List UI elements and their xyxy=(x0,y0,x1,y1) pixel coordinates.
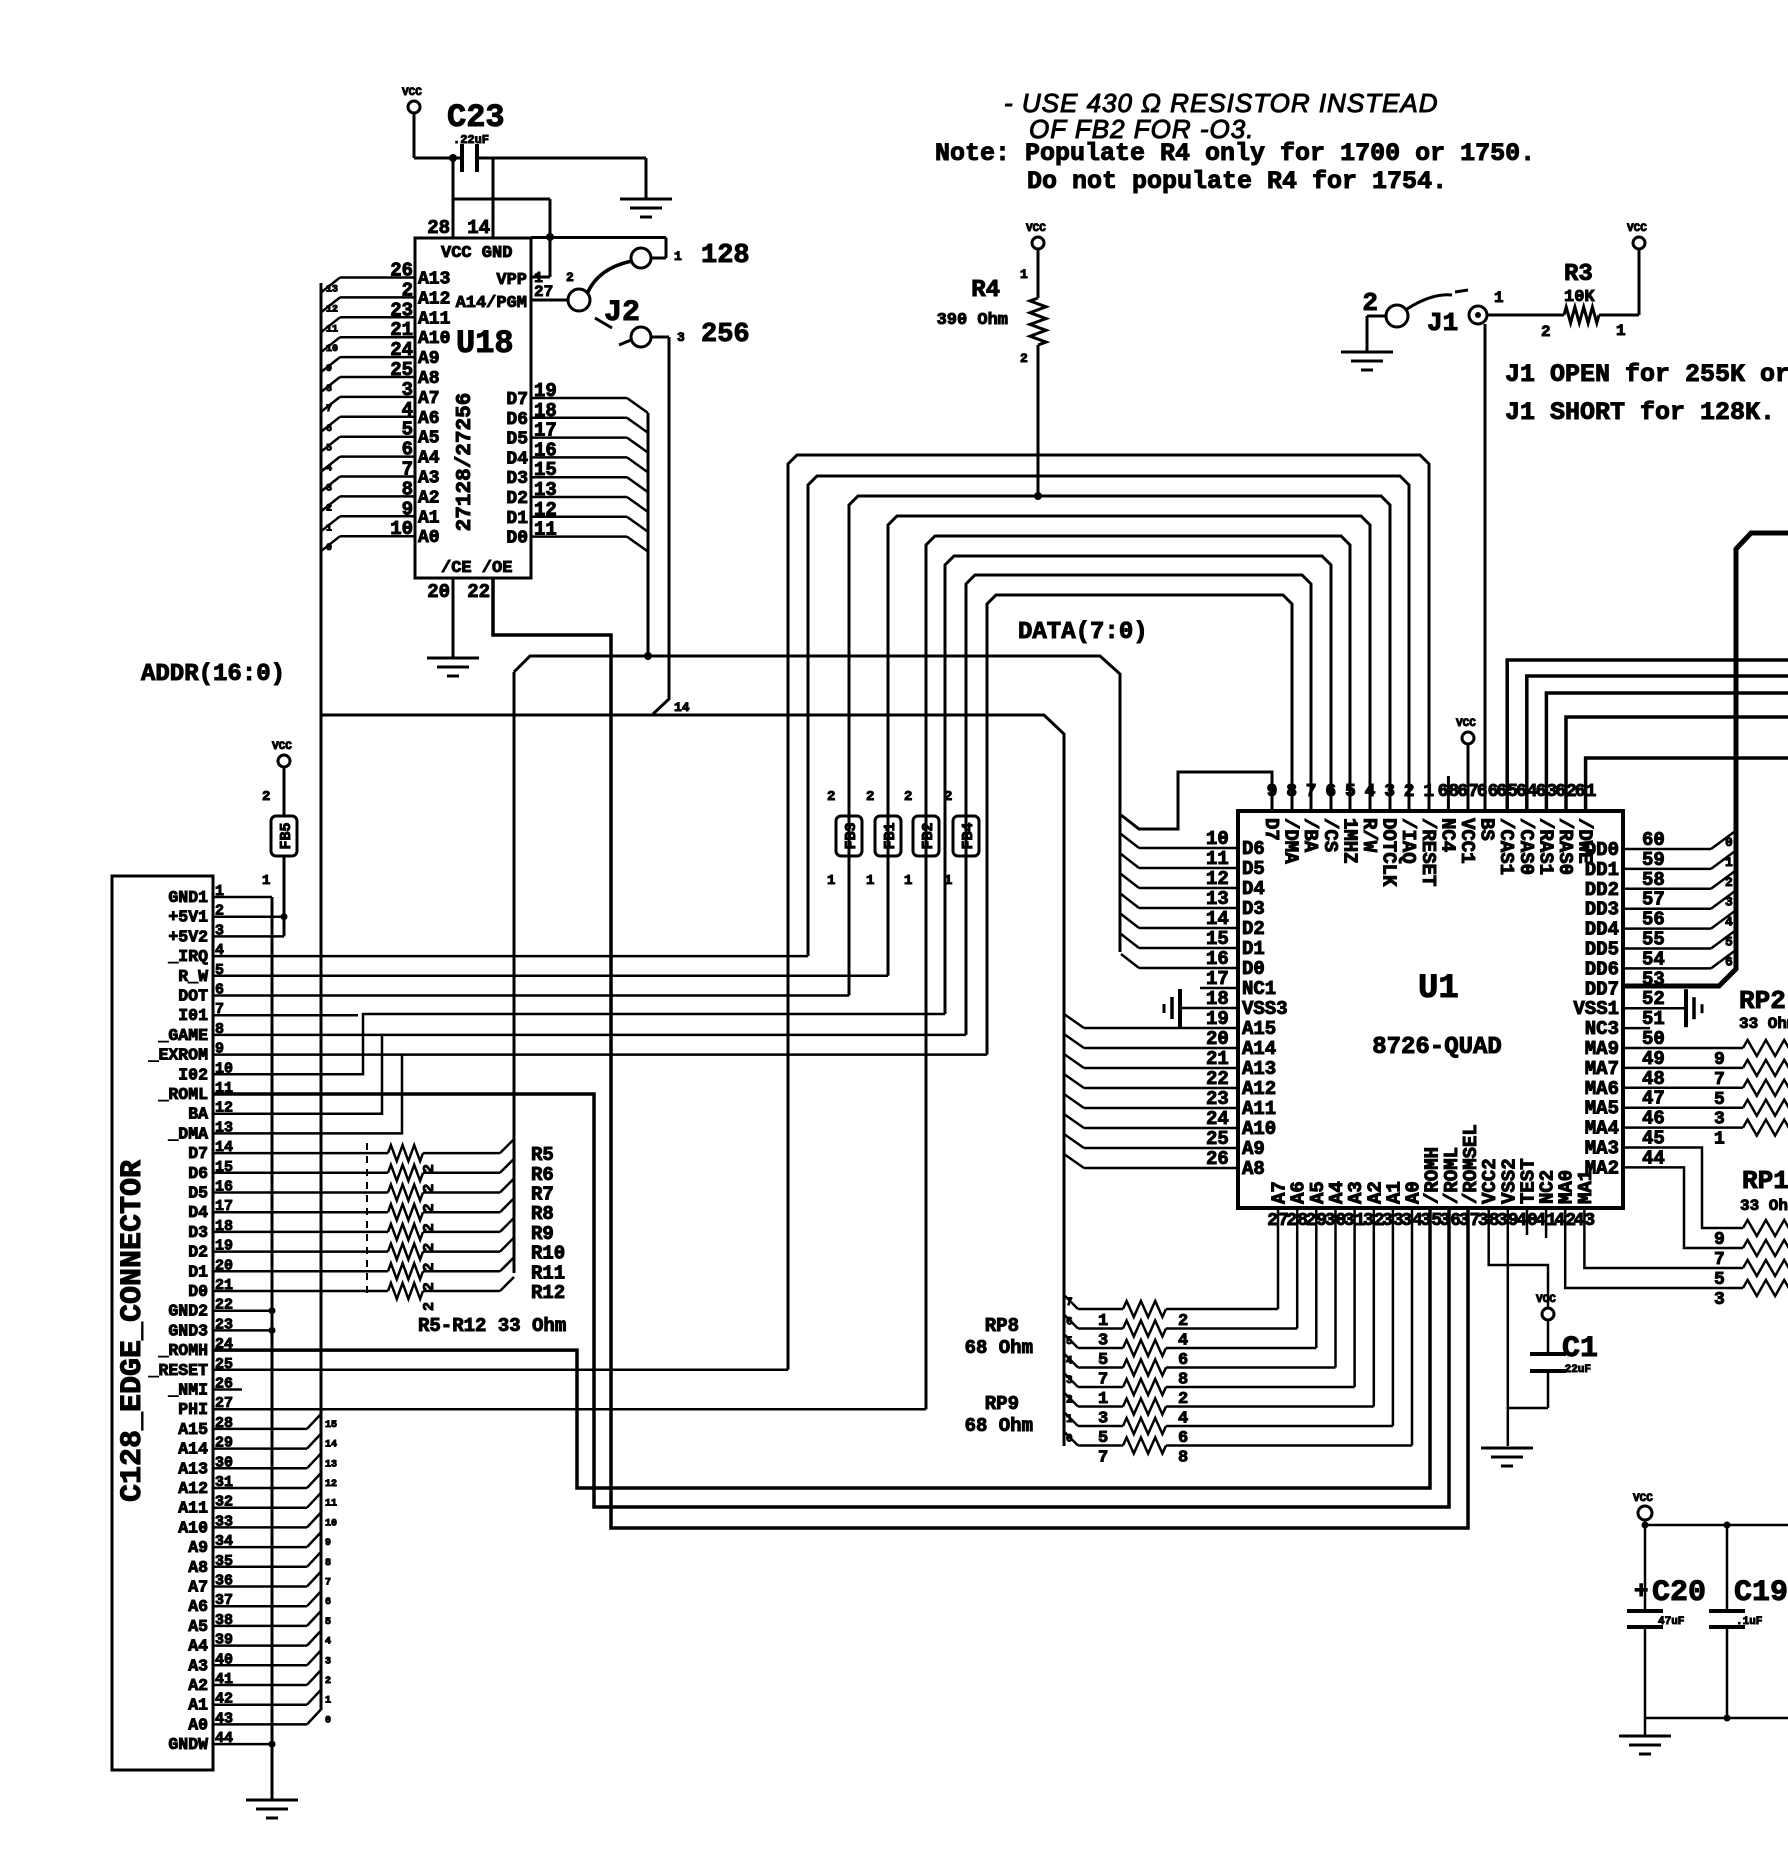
svg-text:MA7: MA7 xyxy=(1585,1058,1619,1080)
svg-text:/IAQ: /IAQ xyxy=(1397,818,1419,864)
svg-text:R9: R9 xyxy=(531,1223,554,1245)
svg-text:5: 5 xyxy=(1345,782,1356,802)
svg-text:2: 2 xyxy=(1541,323,1551,341)
svg-text:_GAME: _GAME xyxy=(157,1026,208,1045)
svg-text:R8: R8 xyxy=(531,1203,554,1225)
svg-text:66: 66 xyxy=(1477,782,1499,802)
svg-text:BS: BS xyxy=(1476,818,1498,841)
svg-text:10: 10 xyxy=(325,1518,337,1529)
svg-text:1: 1 xyxy=(827,873,835,889)
svg-text:3: 3 xyxy=(1066,1375,1073,1387)
svg-text:J1 OPEN for 255K or: J1 OPEN for 255K or xyxy=(1505,360,1788,389)
svg-text:RP9: RP9 xyxy=(985,1393,1019,1415)
svg-text:2: 2 xyxy=(827,789,835,805)
svg-text:RP8: RP8 xyxy=(985,1315,1019,1337)
svg-text:A11: A11 xyxy=(178,1499,208,1518)
svg-text:DD2: DD2 xyxy=(1585,879,1619,901)
svg-text:D4: D4 xyxy=(188,1203,208,1222)
svg-text:A14: A14 xyxy=(178,1440,208,1459)
svg-text:R4: R4 xyxy=(971,277,1000,304)
svg-text:D2: D2 xyxy=(188,1243,208,1262)
svg-text:/CAS0: /CAS0 xyxy=(1515,818,1537,875)
svg-text:14: 14 xyxy=(674,700,690,715)
svg-text:A6: A6 xyxy=(188,1597,208,1616)
svg-text:7: 7 xyxy=(326,404,332,415)
svg-text:4: 4 xyxy=(1725,915,1733,930)
svg-text:8: 8 xyxy=(326,384,332,395)
svg-text:D1: D1 xyxy=(1242,938,1265,960)
svg-text:14: 14 xyxy=(467,217,490,239)
svg-text:9: 9 xyxy=(325,1538,331,1549)
svg-text:Do not populate R4 for 1754.: Do not populate R4 for 1754. xyxy=(1027,167,1447,196)
svg-text:11: 11 xyxy=(1206,848,1229,870)
svg-text:D0: D0 xyxy=(506,529,528,549)
svg-text:5: 5 xyxy=(1066,1336,1073,1348)
svg-text:U1: U1 xyxy=(1418,970,1459,1008)
svg-text:0: 0 xyxy=(1066,1434,1073,1446)
svg-text:15: 15 xyxy=(1206,928,1229,950)
svg-text:6: 6 xyxy=(1325,782,1336,802)
svg-text:A9: A9 xyxy=(188,1538,208,1557)
svg-text:MA6: MA6 xyxy=(1585,1078,1619,1100)
svg-text:FB5: FB5 xyxy=(278,822,295,849)
svg-text:C128_EDGE_CONNECTOR: C128_EDGE_CONNECTOR xyxy=(116,1160,150,1502)
svg-text:2: 2 xyxy=(1066,1395,1073,1407)
svg-text:D5: D5 xyxy=(188,1184,208,1203)
svg-text:R5-R12 33 Ohm: R5-R12 33 Ohm xyxy=(418,1315,566,1337)
svg-text:/BA: /BA xyxy=(1299,818,1321,853)
svg-text:2: 2 xyxy=(326,503,332,514)
svg-text:18: 18 xyxy=(1206,988,1229,1010)
svg-text:12: 12 xyxy=(1206,868,1229,890)
svg-text:A10: A10 xyxy=(418,329,450,349)
svg-text:7: 7 xyxy=(1098,1449,1108,1468)
svg-text:16: 16 xyxy=(1206,948,1229,970)
svg-text:D2: D2 xyxy=(506,489,528,509)
svg-text:6: 6 xyxy=(1725,954,1733,969)
svg-text:5: 5 xyxy=(326,444,332,455)
svg-text:33 Ohm: 33 Ohm xyxy=(1740,1197,1788,1215)
svg-text:/CS: /CS xyxy=(1319,818,1341,852)
svg-text:D2: D2 xyxy=(1242,918,1265,940)
svg-text:.22uF: .22uF xyxy=(453,133,489,147)
svg-text:A10: A10 xyxy=(178,1518,208,1537)
svg-text:A0: A0 xyxy=(418,528,440,548)
svg-text:C1: C1 xyxy=(1562,1332,1598,1366)
svg-text:DATA(7:0): DATA(7:0) xyxy=(1018,619,1148,646)
svg-text:68 Ohm: 68 Ohm xyxy=(965,1415,1033,1437)
svg-text:2: 2 xyxy=(1020,351,1028,366)
svg-text:14: 14 xyxy=(1206,908,1229,930)
svg-text:VPP: VPP xyxy=(496,271,527,290)
svg-text:1: 1 xyxy=(1066,1414,1073,1426)
svg-text:2: 2 xyxy=(866,789,874,805)
svg-text:8: 8 xyxy=(1178,1449,1188,1468)
svg-text:4: 4 xyxy=(325,1637,331,1648)
svg-text:D4: D4 xyxy=(506,449,528,469)
svg-text:5: 5 xyxy=(1725,935,1733,950)
svg-text:12: 12 xyxy=(326,304,338,315)
svg-text:A15: A15 xyxy=(1242,1018,1276,1040)
svg-text:VCC: VCC xyxy=(1026,223,1046,235)
svg-text:A9: A9 xyxy=(418,349,440,369)
svg-text:C23: C23 xyxy=(447,99,505,136)
svg-text:R5: R5 xyxy=(531,1144,554,1166)
svg-text:GND1: GND1 xyxy=(168,888,208,907)
svg-text:4: 4 xyxy=(1066,1356,1073,1368)
svg-text:1: 1 xyxy=(1020,267,1028,282)
svg-text:A2: A2 xyxy=(188,1676,208,1695)
svg-text:A15: A15 xyxy=(178,1420,208,1439)
svg-text:A1: A1 xyxy=(418,508,440,528)
svg-text:A14: A14 xyxy=(1242,1038,1276,1060)
svg-text:2: 2 xyxy=(421,1302,438,1311)
svg-text:48: 48 xyxy=(1642,1068,1665,1090)
svg-text:1: 1 xyxy=(674,249,682,264)
svg-text:D7: D7 xyxy=(506,390,528,410)
svg-text:9: 9 xyxy=(1714,1230,1725,1250)
svg-text:3: 3 xyxy=(1714,1290,1725,1310)
svg-text:DD5: DD5 xyxy=(1585,939,1619,961)
svg-text:NC1: NC1 xyxy=(1242,978,1276,1000)
svg-text:DD3: DD3 xyxy=(1585,899,1619,921)
svg-text:3: 3 xyxy=(1725,895,1733,910)
svg-text:/RAS1: /RAS1 xyxy=(1534,818,1556,875)
svg-text:A13: A13 xyxy=(418,270,450,290)
svg-text:A9: A9 xyxy=(1242,1138,1265,1160)
svg-text:256: 256 xyxy=(701,320,750,350)
svg-text:A14/PGM: A14/PGM xyxy=(456,294,527,313)
svg-text:1: 1 xyxy=(325,1696,331,1707)
svg-text:_ROML: _ROML xyxy=(157,1085,208,1104)
svg-text:_IRQ: _IRQ xyxy=(167,947,208,966)
svg-text:_EXROM: _EXROM xyxy=(148,1046,209,1065)
svg-text:15: 15 xyxy=(325,1420,337,1431)
svg-text:23: 23 xyxy=(1206,1088,1229,1110)
svg-text:5: 5 xyxy=(1714,1270,1725,1290)
svg-text:1: 1 xyxy=(1423,782,1434,802)
svg-text:13: 13 xyxy=(326,285,338,296)
svg-text:VCC: VCC xyxy=(1536,1294,1556,1306)
svg-text:NC4: NC4 xyxy=(1436,818,1458,852)
svg-text:5: 5 xyxy=(325,1617,331,1628)
svg-text:R6: R6 xyxy=(531,1164,554,1186)
svg-text:D1: D1 xyxy=(188,1262,208,1281)
svg-text:54: 54 xyxy=(1642,948,1665,970)
svg-text:D6: D6 xyxy=(506,410,528,430)
svg-text:A12: A12 xyxy=(178,1479,208,1498)
svg-text:1: 1 xyxy=(1616,322,1626,340)
svg-text:33 Ohm: 33 Ohm xyxy=(1739,1015,1788,1033)
svg-text:+5V2: +5V2 xyxy=(168,927,208,946)
svg-text:49: 49 xyxy=(1642,1048,1665,1070)
svg-text:A13: A13 xyxy=(1242,1058,1276,1080)
svg-text:VCC: VCC xyxy=(272,741,292,753)
svg-text:R11: R11 xyxy=(531,1262,565,1284)
svg-text:RP2: RP2 xyxy=(1739,986,1786,1016)
svg-text:A12: A12 xyxy=(418,289,450,309)
svg-text:D6: D6 xyxy=(1242,838,1265,860)
svg-text:13: 13 xyxy=(325,1459,337,1470)
svg-text:/CE /OE: /CE /OE xyxy=(441,559,512,578)
svg-text:/RAS0: /RAS0 xyxy=(1554,818,1576,875)
svg-text:13: 13 xyxy=(1206,888,1229,910)
svg-text:ADDR(16:0): ADDR(16:0) xyxy=(141,661,285,688)
svg-text:+: + xyxy=(1634,1579,1648,1606)
svg-text:VSS1: VSS1 xyxy=(1573,998,1619,1020)
svg-text:A5: A5 xyxy=(418,429,440,449)
svg-text:MA4: MA4 xyxy=(1585,1118,1619,1140)
svg-text:A10: A10 xyxy=(1242,1118,1276,1140)
svg-text:DD4: DD4 xyxy=(1585,919,1619,941)
svg-text:.1uF: .1uF xyxy=(1736,1616,1762,1628)
svg-text:DD1: DD1 xyxy=(1585,859,1619,881)
svg-text:2: 2 xyxy=(904,789,912,805)
svg-text:R3: R3 xyxy=(1564,261,1593,288)
svg-text:RP1: RP1 xyxy=(1742,1166,1788,1196)
svg-text:_DMA: _DMA xyxy=(167,1124,208,1143)
svg-text:A3: A3 xyxy=(418,469,440,489)
svg-text:A4: A4 xyxy=(418,449,440,469)
svg-text:/CAS1: /CAS1 xyxy=(1495,818,1517,875)
svg-text:D5: D5 xyxy=(506,430,528,450)
svg-text:I01: I01 xyxy=(178,1006,208,1025)
svg-text:14: 14 xyxy=(325,1440,337,1451)
svg-text:/RESET: /RESET xyxy=(1417,818,1439,886)
svg-text:58: 58 xyxy=(1642,869,1665,891)
svg-text:GND3: GND3 xyxy=(168,1321,208,1340)
svg-text:A2: A2 xyxy=(418,488,440,508)
svg-text:A8: A8 xyxy=(188,1558,208,1577)
svg-text:_NMI: _NMI xyxy=(167,1381,208,1400)
svg-text:68 Ohm: 68 Ohm xyxy=(965,1337,1033,1359)
svg-text:4: 4 xyxy=(1365,782,1376,802)
svg-text:A11: A11 xyxy=(418,309,451,329)
svg-text:VCC: VCC xyxy=(1633,1493,1653,1505)
svg-text:+5V1: +5V1 xyxy=(168,908,208,927)
svg-text:7: 7 xyxy=(1714,1250,1725,1270)
svg-text:A3: A3 xyxy=(188,1656,208,1675)
svg-text:R/W: R/W xyxy=(1358,818,1380,853)
svg-text:A12: A12 xyxy=(1242,1078,1276,1100)
svg-text:DOTCLK: DOTCLK xyxy=(1378,818,1400,887)
svg-text:D6: D6 xyxy=(188,1164,208,1183)
svg-text:/DMA: /DMA xyxy=(1280,818,1302,864)
svg-text:47: 47 xyxy=(1642,1088,1665,1110)
svg-text:11: 11 xyxy=(326,324,338,335)
svg-text:A11: A11 xyxy=(1242,1098,1276,1120)
svg-text:6: 6 xyxy=(1066,1317,1073,1329)
svg-text:GNDW: GNDW xyxy=(168,1735,208,1754)
svg-text:56: 56 xyxy=(1642,909,1665,931)
svg-text:_RESET: _RESET xyxy=(148,1361,209,1380)
svg-text:12: 12 xyxy=(325,1479,337,1490)
svg-text:DD0: DD0 xyxy=(1585,839,1619,861)
svg-text:10K: 10K xyxy=(1564,288,1595,307)
svg-text:19: 19 xyxy=(1206,1008,1229,1030)
svg-text:A8: A8 xyxy=(1242,1158,1265,1180)
svg-text:52: 52 xyxy=(1642,988,1665,1010)
svg-text:D5: D5 xyxy=(1242,858,1265,880)
svg-text:7: 7 xyxy=(1306,782,1317,802)
svg-text:1: 1 xyxy=(866,873,874,889)
svg-text:44: 44 xyxy=(1642,1147,1665,1169)
svg-text:47uF: 47uF xyxy=(1658,1616,1684,1628)
svg-text:D7: D7 xyxy=(188,1144,208,1163)
svg-text:A5: A5 xyxy=(188,1617,208,1636)
svg-text:A7: A7 xyxy=(188,1578,208,1597)
svg-text:1: 1 xyxy=(326,523,332,534)
svg-text:1MHZ: 1MHZ xyxy=(1338,818,1360,864)
svg-text:C20: C20 xyxy=(1652,1576,1706,1610)
svg-text:A6: A6 xyxy=(418,409,440,429)
svg-text:51: 51 xyxy=(1642,1008,1665,1030)
svg-text:46: 46 xyxy=(1642,1108,1665,1130)
svg-text:20: 20 xyxy=(1206,1028,1229,1050)
svg-text:8: 8 xyxy=(325,1558,331,1569)
svg-text:DD6: DD6 xyxy=(1585,958,1619,980)
svg-text:10: 10 xyxy=(1206,828,1229,850)
svg-text:MA2: MA2 xyxy=(1585,1157,1619,1179)
svg-text:2: 2 xyxy=(262,789,270,805)
svg-text:27128/27256: 27128/27256 xyxy=(454,393,477,532)
svg-text:BA: BA xyxy=(188,1105,208,1124)
svg-text:1: 1 xyxy=(1725,855,1733,870)
svg-text:VSS3: VSS3 xyxy=(1242,998,1288,1020)
svg-text:D0: D0 xyxy=(1242,958,1265,980)
svg-text:FB3: FB3 xyxy=(843,822,860,849)
svg-text:2: 2 xyxy=(325,1676,331,1687)
svg-text:A4: A4 xyxy=(188,1637,208,1656)
svg-text:FB4: FB4 xyxy=(960,822,977,849)
svg-text:3: 3 xyxy=(325,1656,331,1667)
svg-text:17: 17 xyxy=(1206,968,1229,990)
svg-text:0: 0 xyxy=(326,543,332,554)
svg-text:6: 6 xyxy=(326,424,332,435)
svg-text:GND2: GND2 xyxy=(168,1302,208,1321)
svg-text:C19: C19 xyxy=(1734,1576,1788,1610)
svg-text:1: 1 xyxy=(262,873,270,889)
svg-text:VCC: VCC xyxy=(1456,718,1476,730)
svg-text:I02: I02 xyxy=(178,1065,208,1084)
svg-text:25: 25 xyxy=(1206,1128,1229,1150)
svg-text:R12: R12 xyxy=(531,1282,565,1304)
svg-text:_ROMH: _ROMH xyxy=(157,1341,208,1360)
svg-text:MA5: MA5 xyxy=(1585,1098,1619,1120)
svg-text:MA3: MA3 xyxy=(1585,1138,1619,1160)
svg-text:A1: A1 xyxy=(188,1696,208,1715)
svg-text:VCC1: VCC1 xyxy=(1456,818,1478,864)
svg-text:D3: D3 xyxy=(188,1223,208,1242)
svg-text:26: 26 xyxy=(1206,1148,1229,1170)
svg-text:0: 0 xyxy=(325,1715,331,1726)
svg-text:59: 59 xyxy=(1642,849,1665,871)
svg-text:2: 2 xyxy=(1725,875,1733,890)
svg-text:3: 3 xyxy=(326,484,332,495)
svg-text:A0: A0 xyxy=(188,1715,208,1734)
svg-text:24: 24 xyxy=(1206,1108,1229,1130)
svg-text:.22uF: .22uF xyxy=(1558,1364,1591,1376)
svg-text:128: 128 xyxy=(701,241,750,271)
svg-text:A13: A13 xyxy=(178,1459,208,1478)
svg-text:0: 0 xyxy=(1725,835,1733,850)
svg-text:3: 3 xyxy=(1384,782,1395,802)
svg-text:D3: D3 xyxy=(506,469,528,489)
svg-text:VCC: VCC xyxy=(402,87,422,99)
svg-text:Note: Populate R4 only for 170: Note: Populate R4 only for 1700 or 1750. xyxy=(935,139,1535,168)
svg-text:1: 1 xyxy=(1494,289,1504,307)
svg-text:50: 50 xyxy=(1642,1028,1665,1050)
svg-text:27: 27 xyxy=(534,283,553,301)
svg-text:2: 2 xyxy=(1362,288,1378,318)
svg-text:20: 20 xyxy=(427,581,450,603)
svg-text:4: 4 xyxy=(326,464,332,475)
svg-text:A7: A7 xyxy=(418,389,440,409)
svg-text:11: 11 xyxy=(325,1499,337,1510)
svg-text:VCC GND: VCC GND xyxy=(441,244,512,263)
svg-text:D3: D3 xyxy=(1242,898,1265,920)
svg-text:7: 7 xyxy=(1066,1297,1073,1309)
svg-text:6: 6 xyxy=(325,1597,331,1608)
svg-text:55: 55 xyxy=(1642,929,1665,951)
svg-text:R_W: R_W xyxy=(178,967,208,986)
svg-text:390 Ohm: 390 Ohm xyxy=(937,311,1008,330)
svg-text:2: 2 xyxy=(566,270,574,285)
svg-text:J1: J1 xyxy=(1427,308,1458,338)
svg-text:1: 1 xyxy=(1714,1130,1725,1150)
svg-text:A8: A8 xyxy=(418,369,440,389)
svg-text:8726-QUAD: 8726-QUAD xyxy=(1372,1034,1502,1061)
svg-text:DD7: DD7 xyxy=(1585,978,1619,1000)
svg-text:D1: D1 xyxy=(506,509,528,529)
svg-text:R7: R7 xyxy=(531,1184,554,1206)
svg-text:D4: D4 xyxy=(1242,878,1265,900)
svg-text:2: 2 xyxy=(1404,782,1415,802)
svg-text:3: 3 xyxy=(677,330,685,345)
svg-text:MA9: MA9 xyxy=(1585,1038,1619,1060)
svg-text:R10: R10 xyxy=(531,1243,565,1265)
svg-text:U18: U18 xyxy=(456,325,514,362)
svg-text:57: 57 xyxy=(1642,889,1665,911)
svg-text:D0: D0 xyxy=(188,1282,208,1301)
svg-text:DOT: DOT xyxy=(178,987,208,1006)
svg-text:10: 10 xyxy=(326,344,338,355)
svg-text:J1 SHORT for 128K.: J1 SHORT for 128K. xyxy=(1505,398,1775,427)
svg-text:9: 9 xyxy=(326,364,332,375)
svg-text:60: 60 xyxy=(1642,829,1665,851)
svg-text:VCC: VCC xyxy=(1627,223,1647,235)
svg-text:28: 28 xyxy=(427,217,450,239)
svg-text:1: 1 xyxy=(904,873,912,889)
svg-text:22: 22 xyxy=(467,581,490,603)
svg-text:8: 8 xyxy=(1286,782,1297,802)
svg-text:PHI: PHI xyxy=(178,1400,208,1419)
svg-text:21: 21 xyxy=(1206,1048,1229,1070)
svg-text:FB1: FB1 xyxy=(882,822,899,849)
svg-text:FB2: FB2 xyxy=(920,822,937,849)
svg-text:7: 7 xyxy=(325,1578,331,1589)
svg-text:45: 45 xyxy=(1642,1128,1665,1150)
svg-text:NC3: NC3 xyxy=(1585,1018,1619,1040)
svg-text:22: 22 xyxy=(1206,1068,1229,1090)
